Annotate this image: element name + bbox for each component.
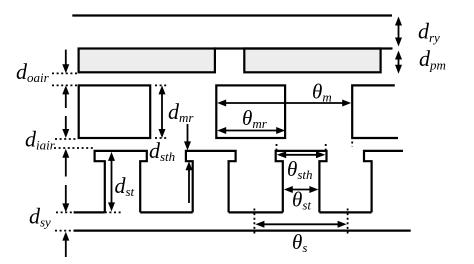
svg-text:dsth: dsth xyxy=(149,138,175,164)
svg-text:doair: doair xyxy=(16,59,50,85)
svg-text:θsth: θsth xyxy=(287,157,313,182)
svg-text:diair: diair xyxy=(25,127,56,153)
svg-text:θs: θs xyxy=(292,230,307,255)
svg-text:dpm: dpm xyxy=(419,46,446,72)
svg-text:dmr: dmr xyxy=(168,99,194,125)
svg-text:θst: θst xyxy=(292,188,311,213)
svg-text:dst: dst xyxy=(115,173,135,199)
svg-text:dry: dry xyxy=(418,19,440,45)
svg-text:θm: θm xyxy=(312,80,332,105)
svg-text:dsy: dsy xyxy=(29,204,51,230)
